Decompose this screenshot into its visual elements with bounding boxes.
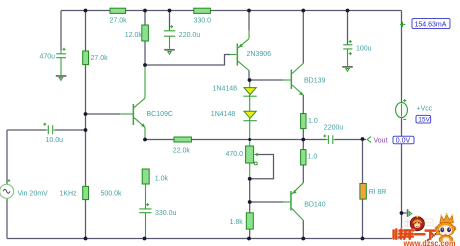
capacitor 100u: [343, 40, 352, 66]
output port Vout: [367, 137, 371, 143]
resistor 27.0k vertical: [83, 51, 89, 65]
wire R1.0 lower to Q4 emitter: [302, 165, 304, 183]
wire input row to cap C2: [7, 129, 46, 131]
svg-text:220.0u: 220.0u: [179, 32, 201, 39]
transistor Q1 BC109C: [133, 98, 146, 139]
wire Q3 collector to rail: [302, 11, 304, 64]
wire right supply drop: [401, 11, 403, 103]
wire Q4 collector to ground rail: [302, 220, 304, 238]
junction node collector Q1: [143, 63, 147, 67]
svg-text:470.0: 470.0: [226, 151, 244, 158]
source +Vcc 15V: [396, 99, 408, 119]
capacitor C3 220.0u: [164, 25, 175, 49]
resistor 500.0k: [83, 186, 89, 199]
resistor R 1.0 upper: [301, 114, 306, 129]
svg-text:0.0V: 0.0V: [396, 138, 411, 145]
svg-text:2N3906: 2N3906: [247, 51, 272, 58]
svg-text:1N4148: 1N4148: [213, 86, 238, 93]
svg-text:10.0u: 10.0u: [46, 137, 64, 144]
wire Q2 emitter to rail: [248, 11, 250, 31]
ground G2: [164, 49, 175, 54]
svg-text:Vout: Vout: [374, 137, 388, 144]
wire cap C2 to bias node: [55, 129, 86, 131]
svg-text:27.0k: 27.0k: [91, 55, 109, 62]
resistor RL 8R: [360, 184, 366, 200]
wire 100u column: [347, 11, 349, 45]
junction node output cross: [248, 138, 251, 141]
svg-text:470u: 470u: [40, 54, 56, 61]
svg-text:22.0k: 22.0k: [173, 148, 191, 155]
wire top supply rail: [61, 10, 402, 12]
transistor Q3 BD139: [291, 63, 304, 95]
svg-text:1N4148: 1N4148: [211, 111, 236, 118]
current probe arrow: [400, 22, 405, 27]
wire bottom ground rail: [7, 238, 402, 240]
resistor 22.0k: [174, 137, 191, 142]
ammeter box 154.63mA: [412, 19, 450, 29]
transistor Q4 BD140: [290, 183, 303, 221]
wire Q1 emitter node row: [145, 139, 174, 141]
potentiometer 470.0: [246, 146, 258, 165]
junction node supply ground: [400, 211, 404, 215]
wire junction to Q2 base: [145, 55, 230, 66]
svg-text:BD139: BD139: [304, 78, 326, 85]
wire left input column: [6, 130, 8, 239]
wire Q3 emitter to R 1.0: [302, 95, 304, 114]
transistor Q2 2N3906: [237, 39, 249, 71]
svg-text:27.0k: 27.0k: [110, 18, 128, 25]
resistor 27.0k top: [110, 8, 126, 13]
capacitor 2200u: [323, 135, 334, 144]
watermark monkey mascot: [424, 213, 456, 244]
junction node Vout: [361, 137, 365, 141]
wire 220u column: [169, 11, 171, 31]
svg-text:www.dzsc.com: www.dzsc.com: [403, 238, 456, 246]
wire supply lower segment: [401, 118, 403, 239]
watermark emblem: [410, 216, 424, 231]
wire pot wiper loop: [250, 155, 274, 179]
junction dots top rail: [84, 9, 88, 13]
resistor R 1.0 lower: [301, 150, 306, 165]
wire cap 2200u to Vout: [334, 139, 366, 141]
svg-text:2200u: 2200u: [324, 124, 344, 131]
svg-text:12.0k: 12.0k: [125, 32, 143, 39]
svg-text:Rl 8R: Rl 8R: [369, 189, 387, 196]
wire output row: [192, 139, 327, 141]
svg-text:15V: 15V: [418, 117, 430, 124]
capacitor C2 10.0u: [43, 123, 55, 135]
svg-text:330.0: 330.0: [194, 18, 212, 25]
wire collector column Q1: [144, 11, 146, 26]
voltmeter box 15V: [416, 115, 431, 123]
svg-text:BC109C: BC109C: [147, 111, 173, 118]
ground G1: [56, 75, 67, 80]
resistor 1.0k: [142, 169, 149, 184]
svg-text:154.63mA: 154.63mA: [415, 21, 447, 28]
wire junction to Q1 collector: [144, 65, 146, 98]
capacitor C1 470u: [56, 48, 66, 75]
svg-text:1.0: 1.0: [308, 154, 318, 161]
source Vin: [0, 179, 14, 200]
wire left drop to C 470u: [60, 11, 62, 51]
junction node input cap: [84, 128, 88, 132]
wire output node column: [302, 129, 304, 150]
wire Q2 collector to diode node: [248, 70, 250, 80]
junction dots bottom rail: [84, 237, 88, 241]
junction node base Q1: [84, 112, 88, 116]
diode D2 1N4148: [243, 111, 256, 120]
svg-text:BD140: BD140: [304, 202, 326, 209]
junction node diodes top: [248, 78, 252, 82]
svg-text:1.0k: 1.0k: [155, 176, 169, 183]
wire bias column upper: [85, 11, 87, 52]
voltmeter box 0.0V: [393, 136, 414, 144]
svg-text:1.8k: 1.8k: [230, 219, 244, 226]
diode D1 1N4148: [243, 88, 256, 97]
svg-text:1.0: 1.0: [308, 118, 318, 125]
wire base of Q1: [86, 113, 121, 115]
junction node emitter Q1: [143, 138, 147, 142]
wire RL to ground rail: [362, 199, 364, 238]
svg-text:330.0u: 330.0u: [155, 210, 177, 217]
wire Vout node to RL: [362, 139, 364, 184]
wire Q4 base row: [250, 201, 283, 203]
svg-text:+Vcc: +Vcc: [417, 105, 433, 112]
svg-text:1KHz: 1KHz: [60, 191, 78, 198]
capacitor 330.0u: [139, 184, 151, 239]
wire bias column lower: [85, 65, 87, 239]
svg-text:500.0k: 500.0k: [101, 191, 123, 198]
resistor 12.0k: [142, 25, 149, 41]
wire diode node to Q3 base: [250, 79, 284, 81]
svg-text:100u: 100u: [356, 46, 372, 53]
svg-text:Vin 20mV: Vin 20mV: [18, 191, 49, 198]
watermark ghost glyphs: [405, 219, 433, 228]
resistor 1.8k: [246, 213, 253, 229]
junction node output mid: [301, 138, 305, 142]
watermark text weiku: [394, 229, 435, 239]
wire 12k to junction: [144, 41, 146, 65]
wire pot bottom column: [249, 163, 251, 179]
junction node pot bottom: [248, 177, 252, 181]
junction node base Q4: [248, 200, 252, 204]
resistor 330.0: [194, 8, 211, 13]
ground G3: [342, 66, 353, 71]
wire 1.8k to ground rail: [249, 229, 251, 238]
ground G4 rotated: [402, 209, 412, 217]
wire bias spreader column: [249, 179, 251, 213]
wire diode chain column: [249, 80, 251, 146]
